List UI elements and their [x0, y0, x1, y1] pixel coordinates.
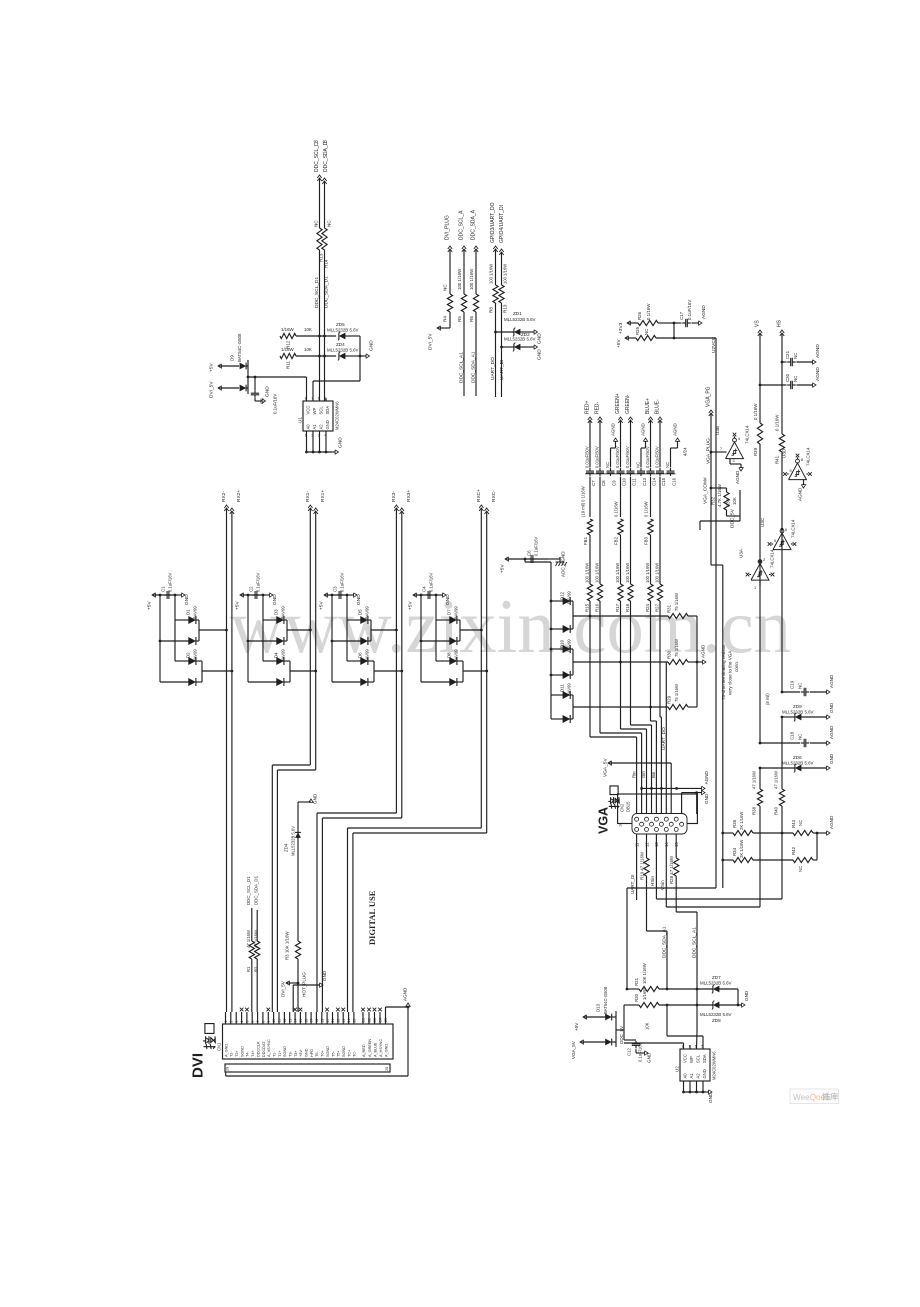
wire VGA row3 pins down [636, 834, 638, 900]
svg-text:FB1: FB1 [583, 536, 588, 545]
svg-text:ZD7: ZD7 [712, 975, 721, 980]
svg-text:RX2+: RX2+ [236, 490, 242, 502]
wire AGND row above VGA [642, 787, 702, 789]
svg-text:+5V: +5V [235, 601, 241, 610]
wire VGA_PLUG [710, 413, 712, 480]
svg-text:100 1/16W: 100 1/16W [654, 563, 659, 583]
connector CN1 DVI box [223, 1024, 394, 1059]
svg-text:C21: C21 [785, 350, 790, 359]
svg-text:R26: R26 [637, 311, 642, 320]
svg-text:3: 3 [235, 1021, 239, 1023]
svg-text:3: 3 [323, 140, 329, 143]
connector CN2 DB15 VGA outer bracket [618, 794, 698, 824]
svg-text:AGND: AGND [815, 344, 821, 358]
svg-text:74LCX14: 74LCX14 [806, 447, 811, 466]
svg-text:(8 mil): (8 mil) [765, 693, 770, 705]
svg-text:A_GND: A_GND [224, 1044, 228, 1057]
wire clamp node A to pair 481.3 [460, 629, 481, 631]
wire U3B pin3 to AGND [729, 459, 731, 464]
svg-text:R39: R39 [753, 447, 758, 456]
ground ADC_AGND chassis [559, 557, 561, 562]
svg-text:MLL5232B 5.6V: MLL5232B 5.6V [782, 761, 814, 766]
svg-text:D11: D11 [560, 684, 565, 692]
svg-text:R11: R11 [286, 360, 291, 369]
svg-text:Bin: Bin [651, 771, 656, 778]
svg-text:AGND: AGND [701, 644, 706, 658]
diode D3 second half [247, 595, 249, 641]
svg-text:GND: GND [537, 349, 543, 360]
svg-text:+5V: +5V [319, 601, 325, 610]
wire VSin to R38 line [666, 906, 760, 908]
power DVI_5V arrow [437, 326, 440, 330]
svg-text:GPIO3/UART_DO: GPIO3/UART_DO [490, 202, 496, 243]
svg-text:SGND: SGND [342, 1046, 346, 1057]
diode D2 second half [159, 641, 161, 682]
svg-text:R19 47 1/16W: R19 47 1/16W [639, 851, 644, 880]
svg-text:HS: HS [777, 319, 783, 327]
svg-text:MLL5232B 5.6V: MLL5232B 5.6V [700, 1012, 732, 1017]
svg-text:C18: C18 [790, 731, 795, 740]
svg-text:R20: R20 [634, 993, 639, 1002]
svg-text:VGA_PG: VGA_PG [706, 386, 712, 407]
svg-text:CN2: CN2 [620, 803, 625, 812]
svg-text:C10: C10 [622, 477, 627, 486]
connector CN1 shell bar [225, 1064, 390, 1072]
wire clamp node A to pair 310.3 [287, 629, 310, 631]
svg-text:A1: A1 [689, 1073, 694, 1079]
svg-text:C2: C2 [368, 1018, 372, 1022]
svg-text:VGA_PLUG: VGA_PLUG [706, 438, 712, 464]
power DVI_5V arrow hotplug [286, 981, 289, 985]
connector CN2 pin circles [635, 817, 639, 821]
wire U2VCC to DDC routing [627, 887, 716, 889]
diode D5 second half [331, 595, 333, 641]
svg-text:T2-: T2- [230, 1051, 234, 1057]
svg-text:7: 7 [256, 1021, 260, 1023]
wire DDC_SDA_A1 to R21 row [666, 988, 668, 990]
svg-text:6: 6 [251, 1021, 255, 1023]
resistor R39 0 1/16W on VS [759, 385, 761, 423]
svg-text:FB3: FB3 [644, 536, 649, 545]
svg-text:NC: NC [798, 734, 803, 740]
svg-text:DVI: DVI [190, 1053, 207, 1078]
svg-text:5: 5 [774, 539, 776, 543]
svg-text:SCL: SCL [319, 406, 324, 415]
wire GND stub dvi [292, 985, 294, 1012]
wire U3D gnd [803, 480, 805, 485]
svg-text:DDCDAT: DDCDAT [262, 1041, 266, 1057]
svg-text:VCC: VCC [683, 1054, 688, 1063]
svg-text:100 1/16W: 100 1/16W [594, 563, 599, 583]
svg-text:ZD2: ZD2 [521, 332, 530, 337]
svg-text:CN1: CN1 [217, 1042, 222, 1051]
svg-text:0.1uF/16V: 0.1uF/16V [429, 572, 434, 592]
svg-text:WeeQoo: WeeQoo [793, 1093, 826, 1102]
svg-text:DVI_5V: DVI_5V [209, 381, 215, 398]
svg-text:DDC_5V: DDC_5V [619, 1025, 624, 1044]
op-amp U1 M24C02WMN6 EEPROM box [303, 401, 333, 431]
wire A_GND C5 to AGND arrow [385, 1007, 387, 1012]
svg-text:VS: VS [755, 320, 761, 327]
svg-text:BAT54C-G508: BAT54C-G508 [237, 333, 242, 362]
wire NC cap branch C16 [670, 448, 672, 467]
svg-text:AGND: AGND [610, 423, 615, 436]
svg-text:Gin: Gin [641, 771, 646, 778]
power +5V for C1 [152, 593, 155, 597]
svg-text:R16: R16 [594, 603, 599, 612]
svg-text:DVI_PLUG: DVI_PLUG [445, 215, 451, 240]
wire zener common to GND [359, 336, 361, 381]
power VGA_5V arrow [608, 761, 611, 765]
svg-text:MLL5232B 5.6V: MLL5232B 5.6V [782, 710, 814, 715]
svg-text:GND: GND [338, 437, 344, 448]
svg-text:AGND: AGND [829, 674, 834, 688]
svg-text:DDC_SDA_A1: DDC_SDA_A1 [471, 351, 477, 383]
svg-text:BAT54C-G508: BAT54C-G508 [603, 986, 608, 1014]
wire cap bank common rail [585, 473, 676, 475]
svg-text:GND: GND [647, 1052, 652, 1063]
svg-text:D2: D2 [186, 652, 191, 658]
diode D1 second half [159, 595, 161, 641]
svg-text:10K: 10K [304, 327, 312, 332]
svg-text:DDCCLK: DDCCLK [256, 1041, 260, 1057]
svg-text:M24C02WMN6: M24C02WMN6 [335, 401, 340, 430]
svg-text:ADC_AGND: ADC_AGND [561, 551, 566, 577]
svg-text:R35: R35 [732, 819, 737, 828]
svg-text:TC+: TC+ [347, 1049, 351, 1057]
svg-text:100 1/16W: 100 1/16W [584, 563, 589, 583]
svg-text:5: 5 [246, 1021, 250, 1023]
svg-text:1/16W: 1/16W [642, 988, 647, 1000]
svg-text:RX3-: RX3- [391, 491, 397, 502]
wire U1 bottom pins to GND [306, 431, 308, 452]
svg-text:C4: C4 [379, 1018, 383, 1022]
svg-text:0.01uF/50V: 0.01uF/50V [595, 446, 600, 468]
svg-text:75 1/16W: 75 1/16W [674, 684, 679, 702]
wire RX2 pair down to DVI connector [226, 508, 228, 1012]
svg-text:AGND: AGND [829, 725, 834, 739]
svg-text:BAV99: BAV99 [193, 606, 198, 619]
svg-text:0.1uF/16V: 0.1uF/16V [256, 572, 261, 592]
svg-text:GND: GND [708, 1092, 713, 1103]
svg-text:U3C: U3C [760, 517, 765, 527]
svg-text:+5V: +5V [574, 1022, 579, 1031]
wire NC caps to AGND hooks [611, 447, 616, 449]
svg-text:+5V: +5V [147, 601, 153, 610]
svg-text:MLL5232B 5.6V: MLL5232B 5.6V [700, 981, 732, 986]
svg-text:4/24: 4/24 [683, 447, 688, 456]
svg-text:10K: 10K [645, 1022, 650, 1030]
power +3V3 arrow [627, 321, 630, 325]
svg-text:RXC+: RXC+ [476, 489, 482, 502]
svg-text:C11: C11 [632, 478, 637, 486]
svg-text:13: 13 [288, 1019, 292, 1023]
wire clamp node B to pair 231.9 [202, 670, 232, 672]
diode D8 second half [420, 641, 422, 682]
svg-text:2K 1/16W: 2K 1/16W [739, 812, 744, 830]
svg-text:MLL5232B 5.6V: MLL5232B 5.6V [327, 348, 359, 353]
svg-text:GND: GND [537, 333, 543, 344]
svg-text:C2: C2 [249, 586, 254, 592]
svg-text:8: 8 [305, 397, 307, 401]
svg-text:R29: R29 [667, 695, 672, 704]
wire to U1 VCC [306, 377, 308, 401]
svg-text:MLL5232B 5.6V: MLL5232B 5.6V [291, 826, 296, 856]
svg-text:DVI_5V: DVI_5V [281, 980, 286, 997]
svg-text:RED-: RED- [595, 401, 601, 414]
wire U1 top pins [312, 381, 314, 401]
svg-text:0.01uF/50V: 0.01uF/50V [645, 446, 650, 468]
wire RGB lines down to VGA network [589, 535, 591, 584]
svg-text:U1: U1 [298, 417, 303, 423]
svg-text:R1: R1 [246, 966, 251, 972]
svg-text:GREEN-: GREEN- [625, 394, 631, 414]
svg-text:R6: R6 [469, 316, 474, 322]
svg-text:D6: D6 [358, 652, 363, 658]
svg-text:A2: A2 [696, 1073, 701, 1079]
svg-text:+5V: +5V [209, 363, 215, 372]
svg-text:GND: GND [829, 753, 834, 764]
svg-text:T3-: T3- [289, 1051, 293, 1057]
ground GND arrow [366, 354, 369, 358]
svg-text:A_GREEN: A_GREEN [368, 1039, 372, 1057]
svg-text:NC: NC [793, 376, 798, 382]
svg-text:R13: R13 [503, 304, 508, 313]
svg-text:DVI_5V: DVI_5V [428, 333, 434, 350]
power +5V arrow [625, 336, 628, 340]
svg-text:23: 23 [342, 1019, 346, 1023]
wire HSin [655, 834, 657, 899]
svg-text:C7: C7 [591, 480, 596, 486]
svg-text:100 1/16W: 100 1/16W [457, 268, 462, 290]
svg-text:UART_DI: UART_DI [630, 874, 635, 894]
svg-text:3: 3 [733, 459, 735, 463]
svg-text:(19 mil) 0 1/16W: (19 mil) 0 1/16W [581, 486, 586, 517]
power +5V for C2 [240, 593, 243, 597]
wire D13 common DDC_5V [612, 1016, 617, 1018]
wire R28 to DDC_SCL_A1 descend [676, 911, 697, 913]
svg-text:WP: WP [689, 1056, 694, 1063]
wire RX1 pair down with bend [309, 508, 311, 765]
svg-text:0.1uF/16V: 0.1uF/16V [168, 572, 173, 592]
svg-text:47 1/16W: 47 1/16W [774, 771, 779, 789]
svg-text:T0+: T0+ [321, 1050, 325, 1057]
svg-text:A_HSYNC: A_HSYNC [379, 1039, 383, 1057]
svg-text:RXC-: RXC- [491, 490, 497, 502]
svg-text:DB15: DB15 [626, 801, 631, 812]
svg-text:A1: A1 [312, 424, 317, 430]
svg-text:6: 6 [318, 397, 320, 401]
svg-text:GND: GND [325, 420, 330, 429]
svg-text:HOT_PLUG: HOT_PLUG [302, 972, 307, 997]
svg-text:R41: R41 [775, 455, 780, 464]
svg-text:10K 1/16W: 10K 1/16W [642, 963, 647, 984]
svg-text:VGA_5V: VGA_5V [603, 758, 609, 777]
svg-text:0.1uF/16V: 0.1uF/16V [534, 536, 539, 556]
svg-text:ZD4: ZD4 [284, 843, 289, 852]
op-amp U2 M24C02WMN6 EEPROM box [680, 1049, 710, 1081]
svg-text:3: 3 [314, 140, 320, 143]
svg-text:AGND: AGND [815, 367, 821, 381]
svg-text:74LCX14: 74LCX14 [745, 425, 750, 444]
svg-text:AGND: AGND [829, 815, 834, 829]
svg-text:0.1uF/16V: 0.1uF/16V [687, 300, 692, 320]
svg-text:C20: C20 [785, 373, 790, 382]
svg-text:GPIO4/UART_DI: GPIO4/UART_DI [499, 205, 505, 243]
wire D12 node row to R31 [573, 615, 668, 617]
svg-text:0 1/16W: 0 1/16W [646, 303, 651, 320]
svg-text:22: 22 [337, 1019, 341, 1023]
svg-text:HPD: HPD [310, 1049, 314, 1057]
wire analog +5V rail down to D12 group [524, 559, 526, 562]
svg-text:15: 15 [299, 1019, 303, 1023]
svg-text:C1: C1 [161, 586, 166, 592]
wire VSin [665, 834, 667, 907]
svg-text:BAV99: BAV99 [365, 606, 370, 619]
svg-text:19: 19 [320, 1019, 324, 1023]
svg-text:SGND: SGND [326, 1046, 330, 1057]
svg-text:WP: WP [312, 408, 317, 415]
svg-text:A2: A2 [319, 424, 324, 430]
svg-text:T2+: T2+ [235, 1050, 239, 1057]
svg-text:AGND: AGND [735, 470, 740, 484]
svg-text:D4: D4 [274, 652, 279, 658]
svg-text:GND: GND [272, 594, 278, 605]
svg-text:+5V: +5V [408, 601, 414, 610]
svg-text:HSin: HSin [650, 876, 655, 886]
svg-text:ZD5: ZD5 [336, 322, 345, 327]
wire NC cap branch C9 [610, 448, 612, 467]
svg-text:GND: GND [702, 1069, 707, 1078]
svg-text:SCL: SCL [696, 1054, 701, 1063]
svg-text:NC: NC [793, 353, 798, 359]
svg-text:C16: C16 [672, 477, 677, 486]
svg-text:0 1/16W: 0 1/16W [644, 501, 649, 517]
svg-text:GND: GND [184, 594, 190, 605]
svg-text:100 1/16W: 100 1/16W [489, 264, 494, 284]
svg-text:AGND: AGND [704, 770, 709, 784]
svg-text:ZD9: ZD9 [793, 704, 802, 709]
svg-text:100 1/16W: 100 1/16W [625, 563, 630, 583]
svg-text:BAV99: BAV99 [281, 606, 286, 619]
wire DDC_SCL bus [319, 178, 321, 228]
svg-text:T4+: T4+ [251, 1050, 255, 1057]
svg-text:1: 1 [754, 586, 756, 590]
svg-text:NC: NC [636, 462, 641, 468]
svg-text:UART_DO: UART_DO [490, 357, 496, 380]
svg-text:very close to the VGA: very close to the VGA [728, 650, 733, 695]
svg-text:GND: GND [369, 340, 375, 351]
svg-text:U3B: U3B [715, 426, 720, 435]
svg-text:0 1/16W: 0 1/16W [614, 501, 619, 517]
svg-text:20: 20 [326, 1019, 330, 1023]
connector CN2 D-sub body [632, 814, 687, 835]
svg-text:0 1/16W: 0 1/16W [753, 403, 758, 420]
svg-text:www.zixin.com.cn: www.zixin.com.cn [230, 583, 791, 669]
svg-text:GREEN+: GREEN+ [615, 393, 621, 414]
wire clamp node B to pair 486.7 [463, 670, 487, 672]
svg-text:R8: R8 [489, 307, 494, 313]
svg-text:SDA: SDA [325, 406, 330, 415]
wire U2 bottom pins to GND [683, 1081, 685, 1092]
svg-text:GND: GND [744, 990, 749, 1001]
svg-text:FB2: FB2 [614, 536, 619, 545]
svg-text:24: 24 [347, 1019, 351, 1023]
svg-text:R3 10K 1/16W: R3 10K 1/16W [285, 931, 290, 960]
svg-text:C9: C9 [612, 480, 617, 486]
svg-text:NC: NC [798, 683, 803, 689]
wire routing corners right side [722, 833, 724, 888]
svg-text:RED+: RED+ [585, 400, 591, 414]
svg-text:ZD8: ZD8 [712, 1018, 721, 1023]
svg-text:8: 8 [262, 1021, 266, 1023]
svg-text:conn.: conn. [734, 661, 739, 672]
svg-text:+5V: +5V [616, 339, 622, 348]
svg-text:0.1uF/16V: 0.1uF/16V [638, 1042, 643, 1062]
svg-text:SGND: SGND [283, 1046, 287, 1057]
svg-text:GND: GND [305, 1048, 309, 1057]
wire D9 common [246, 365, 248, 367]
svg-text:NC: NC [665, 462, 670, 468]
wire RGB staircase into VGA pins [589, 601, 591, 737]
svg-text:0.1uF/16V: 0.1uF/16V [340, 572, 345, 592]
svg-text:A_BLUE: A_BLUE [373, 1042, 377, 1057]
diode D7 second half [420, 595, 422, 641]
svg-text:C4: C4 [422, 586, 427, 592]
svg-text:74LCX14: 74LCX14 [791, 519, 796, 538]
svg-text:A_RED: A_RED [362, 1044, 366, 1057]
wire shell ground loop [225, 1072, 227, 1076]
capacitor C6 0.1uF/16V analog rail [505, 557, 508, 561]
svg-text:1/16W: 1/16W [281, 347, 295, 352]
wire U3B input from VGA_PLUG line [711, 451, 727, 453]
svg-text:R31: R31 [667, 604, 672, 613]
svg-text:2: 2 [229, 1021, 233, 1023]
svg-text:DDC_SDA_A1: DDC_SDA_A1 [662, 926, 668, 958]
svg-text:M24C02WMN6: M24C02WMN6 [712, 1051, 717, 1080]
svg-text:C17: C17 [679, 311, 684, 320]
svg-text:AGND: AGND [798, 487, 803, 501]
wire HSin to R40 line [656, 898, 782, 900]
svg-text:DIGITAL USE: DIGITAL USE [367, 890, 377, 945]
svg-text:NC: NC [605, 462, 610, 468]
svg-text:0.1uF/16V: 0.1uF/16V [273, 394, 278, 414]
watermark WeeQoo box [790, 1089, 839, 1104]
svg-text:+5V: +5V [299, 1050, 303, 1057]
wire D10 node row to R30 and AGND [573, 661, 668, 663]
svg-text:DDC_SCL_D: DDC_SCL_D [314, 142, 320, 172]
svg-text:29: 29 [226, 1067, 230, 1071]
svg-text:AGND: AGND [403, 987, 408, 1001]
svg-text:ZD6: ZD6 [793, 755, 802, 760]
svg-text:RX3+: RX3+ [406, 490, 412, 502]
svg-text:R5: R5 [457, 316, 462, 322]
svg-text:C8: C8 [601, 480, 606, 486]
svg-text:25: 25 [353, 1019, 357, 1023]
svg-text:DDC_SDA_A: DDC_SDA_A [471, 209, 477, 240]
svg-text:10K: 10K [732, 497, 737, 505]
wire clamp node A to pair 226.5 [199, 629, 227, 631]
svg-text:GND: GND [704, 793, 709, 804]
svg-text:RX1-: RX1- [305, 491, 311, 502]
svg-text:16: 16 [304, 1019, 308, 1023]
svg-text:18: 18 [315, 1019, 319, 1023]
svg-text:BAV99: BAV99 [454, 606, 459, 619]
svg-text:7: 7 [720, 447, 722, 451]
svg-text:R30: R30 [667, 650, 672, 659]
svg-text:BLUE-: BLUE- [655, 399, 661, 414]
svg-text:A0: A0 [306, 424, 311, 430]
